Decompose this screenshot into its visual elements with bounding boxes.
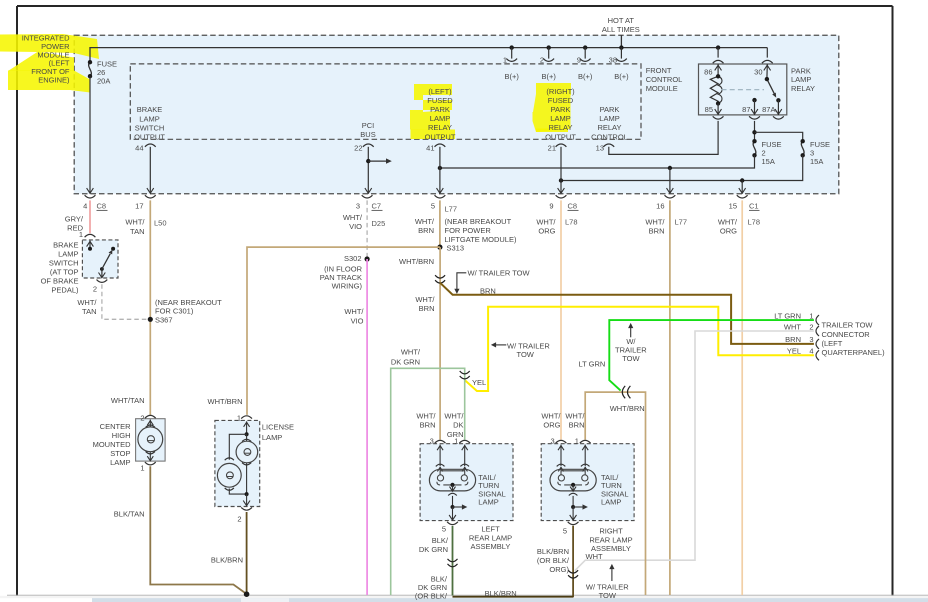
svg-text:W/ TRAILER: W/ TRAILER <box>507 341 550 350</box>
relay pin 86 wire <box>713 48 724 77</box>
FCM pin 21 wire <box>556 144 567 194</box>
trailer tow connector terminals <box>816 315 819 360</box>
brake lamp switch internals <box>87 241 116 278</box>
svg-text:2: 2 <box>809 322 813 331</box>
svg-text:30: 30 <box>754 68 762 77</box>
svg-text:BRN: BRN <box>480 286 496 295</box>
svg-text:(NEAR BREAKOUT: (NEAR BREAKOUT <box>155 298 222 307</box>
svg-text:1: 1 <box>809 311 813 320</box>
brake lamp switch box <box>82 240 118 278</box>
svg-text:DK GRN: DK GRN <box>391 358 420 367</box>
svg-text:ALL TIMES: ALL TIMES <box>602 25 640 34</box>
fuse 2 output wire to pins 41 and 16 <box>438 155 755 170</box>
svg-text:RELAY: RELAY <box>597 123 621 132</box>
wire YEL to trailer tow connector pin 4 <box>465 307 814 391</box>
label license lamp <box>208 397 295 523</box>
svg-text:SWITCH: SWITCH <box>135 123 165 132</box>
svg-text:BRN: BRN <box>569 421 585 430</box>
IPM exit 4 wire from fuse 26 <box>87 76 94 193</box>
svg-text:5: 5 <box>442 525 446 534</box>
wire WHT/ORG L78 exit 9 to right tail lamp pin 3 <box>560 200 562 439</box>
B+ labels <box>505 72 630 81</box>
svg-text:ENGINE): ENGINE) <box>38 76 70 85</box>
dashed wire brake switch pin 2 to S367 <box>102 284 147 319</box>
break symbol yellow/green junction <box>460 371 470 374</box>
svg-text:9: 9 <box>577 56 581 65</box>
break symbol on WHT/BRN left <box>435 275 445 278</box>
svg-text:(AT TOP: (AT TOP <box>50 268 79 277</box>
svg-text:L78: L78 <box>565 218 578 227</box>
svg-text:RIGHT: RIGHT <box>599 527 623 536</box>
svg-text:WHT/: WHT/ <box>718 218 738 227</box>
svg-text:WHT/: WHT/ <box>343 213 363 222</box>
wire WHT/BRN S313 branch to license lamp <box>247 247 440 415</box>
label right rear lamp assembly <box>563 527 633 554</box>
svg-text:BLK/TAN: BLK/TAN <box>114 510 145 519</box>
svg-text:15A: 15A <box>810 157 823 166</box>
svg-text:20A: 20A <box>97 77 110 86</box>
svg-text:(NEAR BREAKOUT: (NEAR BREAKOUT <box>445 217 512 226</box>
svg-text:86: 86 <box>704 68 712 77</box>
IPM exit connectors <box>85 195 748 198</box>
license lamp bulb lower <box>217 458 246 494</box>
fuse 2 15A <box>752 139 756 158</box>
brake lamp switch pin 2 connector <box>97 280 108 283</box>
wire BLK/DK GRN left lamp pin 5 to bottom <box>452 526 454 596</box>
w/ trailer tow pointer (WHT) <box>609 564 614 581</box>
svg-text:LAMP: LAMP <box>550 114 570 123</box>
svg-text:3: 3 <box>551 437 555 446</box>
svg-text:WHT/: WHT/ <box>125 218 145 227</box>
svg-text:WHT: WHT <box>586 552 603 561</box>
svg-text:WHT/: WHT/ <box>415 295 435 304</box>
wire BLK/BRN license lamp to bottom splice <box>246 512 248 594</box>
break symbol on BLK/BRN right <box>568 570 578 573</box>
svg-text:LAMP: LAMP <box>262 433 282 442</box>
svg-text:WHT/: WHT/ <box>401 348 421 357</box>
license lamp box <box>215 420 260 506</box>
break symbol LT GRN to WHT/BRN <box>622 386 625 398</box>
hot at all times feed wire <box>620 35 622 47</box>
svg-text:LT GRN: LT GRN <box>774 311 801 320</box>
svg-text:PARK: PARK <box>791 66 811 75</box>
svg-text:16: 16 <box>656 202 664 211</box>
svg-text:WHT/: WHT/ <box>416 411 436 420</box>
svg-text:YEL: YEL <box>787 347 801 356</box>
svg-text:ORG: ORG <box>543 421 560 430</box>
svg-text:BLK/: BLK/ <box>432 536 449 545</box>
FCM pin 9 B+ <box>580 48 591 62</box>
svg-text:L77: L77 <box>445 205 458 214</box>
svg-text:B(+): B(+) <box>505 72 520 81</box>
svg-text:CONNECTOR: CONNECTOR <box>822 330 871 339</box>
svg-text:BRAKE: BRAKE <box>53 241 78 250</box>
svg-text:L50: L50 <box>154 218 167 227</box>
wire WHT/VIO D25 to bottom <box>366 259 368 595</box>
svg-text:FUSED: FUSED <box>427 96 453 105</box>
svg-text:REAR LAMP: REAR LAMP <box>469 533 512 542</box>
svg-text:HOT AT: HOT AT <box>608 16 635 25</box>
relay pin 87 contact <box>749 98 760 119</box>
svg-text:MODULE: MODULE <box>646 84 678 93</box>
svg-text:3: 3 <box>809 335 813 344</box>
svg-text:WHT/: WHT/ <box>344 307 364 316</box>
brake lamp switch pin 1 connector <box>85 234 96 237</box>
relay switch arm 30-87A <box>765 77 781 103</box>
svg-text:D25: D25 <box>372 219 386 228</box>
svg-text:BRN: BRN <box>418 226 434 235</box>
svg-text:LAMP: LAMP <box>601 498 621 507</box>
svg-text:WHT: WHT <box>784 322 801 331</box>
IPM exit 15 wire <box>739 181 746 194</box>
CHMSL pin 1 connector <box>145 462 156 465</box>
license lamp bulb upper <box>236 434 258 494</box>
svg-text:1: 1 <box>237 414 241 423</box>
svg-text:CENTER: CENTER <box>100 422 131 431</box>
svg-text:BRAKE: BRAKE <box>137 105 162 114</box>
svg-text:(OR BLK/: (OR BLK/ <box>415 591 448 600</box>
svg-text:1: 1 <box>140 464 144 473</box>
svg-text:15A: 15A <box>762 157 775 166</box>
svg-text:WHT/: WHT/ <box>645 218 665 227</box>
label S302 <box>320 254 363 290</box>
svg-text:38: 38 <box>609 56 617 65</box>
IPM exit 16 wire <box>667 168 674 194</box>
svg-text:B(+): B(+) <box>542 72 557 81</box>
center high mounted stop lamp box <box>136 419 166 461</box>
svg-text:RELAY: RELAY <box>548 123 572 132</box>
svg-text:VIO: VIO <box>351 316 364 325</box>
svg-text:LICENSE: LICENSE <box>262 423 294 432</box>
svg-text:WHT/: WHT/ <box>536 218 556 227</box>
splice S313 <box>437 245 442 250</box>
splice S367 <box>148 317 153 322</box>
wire WHT trailer tow connector pin 2 <box>575 331 814 571</box>
svg-text:4: 4 <box>83 202 87 211</box>
svg-text:ORG: ORG <box>720 227 737 236</box>
wire GRY/RED exit 4 to brake lamp switch <box>89 200 91 233</box>
FCM bottom pin numbers <box>135 144 604 153</box>
svg-text:TAN: TAN <box>130 227 144 236</box>
FCM B+ pin numbers <box>503 56 617 65</box>
right tail/turn signal lamp output branch <box>569 485 588 520</box>
svg-text:2: 2 <box>93 284 97 293</box>
svg-text:2: 2 <box>237 515 241 524</box>
wire WHT/TAN L50 exit 17 to CHMSL <box>149 200 151 415</box>
trailer tow connector labels <box>774 311 813 355</box>
wire WHT/BRN L77 exit 16 to bottom <box>669 200 671 595</box>
svg-text:WHT/: WHT/ <box>565 411 585 420</box>
break symbol on BLK/DK GRN <box>448 559 458 562</box>
svg-text:22: 22 <box>354 144 362 153</box>
w/ trailer tow pointer (YEL) <box>491 342 506 347</box>
svg-text:41: 41 <box>426 144 434 153</box>
wire BRN to trailer tow connector pin 3 <box>440 283 814 344</box>
svg-text:(LEFT: (LEFT <box>822 339 843 348</box>
left lamp pin labels <box>416 411 464 445</box>
relay pin labels <box>704 68 775 115</box>
fuse 3 output wire to pins 9 and 15 <box>559 155 803 182</box>
svg-text:9: 9 <box>549 202 553 211</box>
license lamp internals <box>229 421 249 459</box>
FCM pin 1 B+ <box>506 48 517 62</box>
svg-text:TAN: TAN <box>82 307 96 316</box>
svg-text:1: 1 <box>503 56 507 65</box>
integrated power module box (IPM) <box>74 35 839 194</box>
left tail/turn signal lamp pin 5 connector <box>447 522 458 525</box>
license lamp output node <box>243 492 250 506</box>
svg-text:TOW: TOW <box>622 354 640 363</box>
svg-text:PARK: PARK <box>600 105 620 114</box>
svg-text:21: 21 <box>548 144 556 153</box>
svg-text:S302: S302 <box>344 254 362 263</box>
svg-text:B(+): B(+) <box>614 72 629 81</box>
FCM pin 2 B+ <box>543 48 554 62</box>
park lamp relay box <box>699 64 787 115</box>
svg-text:BLK/BRN: BLK/BRN <box>485 589 517 598</box>
relay pin 30 wire <box>762 48 773 80</box>
wire WHT/DK GRN elbow to left tail lamp pin 1 <box>391 368 465 595</box>
svg-text:5: 5 <box>431 202 435 211</box>
wire WHT/BRN L77 exit 5 to S313 <box>439 200 441 247</box>
svg-text:STOP: STOP <box>110 449 130 458</box>
label brake lamp switch <box>41 230 98 316</box>
svg-text:ORG: ORG <box>538 227 555 236</box>
wire BLK/TAN CHMSL to bottom splice <box>150 466 246 594</box>
svg-text:PARK: PARK <box>430 105 450 114</box>
svg-text:CONTROL: CONTROL <box>646 75 683 84</box>
svg-text:(LEFT): (LEFT) <box>428 87 452 96</box>
svg-text:WHT/: WHT/ <box>415 217 435 226</box>
svg-text:WIRING): WIRING) <box>332 282 363 291</box>
svg-text:BRN: BRN <box>649 227 665 236</box>
svg-text:S313: S313 <box>447 244 465 253</box>
wire WHT/ORG L78 exit 15 to bottom <box>741 200 743 595</box>
svg-text:MOUNTED: MOUNTED <box>93 440 131 449</box>
svg-text:QUARTERPANEL): QUARTERPANEL) <box>822 348 886 357</box>
svg-text:CONTROL: CONTROL <box>591 132 628 141</box>
svg-text:DK: DK <box>453 421 463 430</box>
label hot at all times <box>602 16 640 34</box>
left tail/turn signal lamp pin connectors <box>435 440 470 443</box>
w/ trailer tow pointer (LT GRN) <box>628 323 633 337</box>
svg-text:BRN: BRN <box>419 304 435 313</box>
FCM pin 13 wire to relay 85 <box>603 121 718 154</box>
svg-text:W/ TRAILER TOW: W/ TRAILER TOW <box>468 268 531 277</box>
svg-text:1: 1 <box>454 437 458 446</box>
FCM pin 38 B+ <box>616 48 627 62</box>
svg-text:DK GRN: DK GRN <box>419 545 448 554</box>
wire BLK/BRN bottom jumper <box>453 596 574 598</box>
svg-text:BLK/BRN: BLK/BRN <box>537 547 569 556</box>
FCM pin 44 wire <box>145 144 156 194</box>
svg-text:L77: L77 <box>675 218 688 227</box>
svg-text:BRN: BRN <box>420 421 436 430</box>
svg-text:FRONT: FRONT <box>646 66 672 75</box>
svg-text:TRAILER TOW: TRAILER TOW <box>822 321 874 330</box>
svg-text:5: 5 <box>563 527 567 536</box>
wire LT GRN trailer tow connector pin 1 <box>609 320 814 391</box>
svg-text:ORG): ORG) <box>549 565 569 574</box>
svg-text:87: 87 <box>742 105 750 114</box>
svg-text:WHT/BRN: WHT/BRN <box>208 397 243 406</box>
relay pin 85 wire <box>713 103 724 119</box>
FCM pin 41 wire <box>435 144 446 194</box>
svg-text:1: 1 <box>79 230 83 239</box>
svg-text:GRY/: GRY/ <box>65 215 84 224</box>
bottom splice node <box>244 591 250 597</box>
svg-text:VIO: VIO <box>349 222 362 231</box>
wire BLK/BRN right lamp pin 5 to bottom <box>572 526 574 598</box>
relay pin 87A wire <box>773 100 784 119</box>
label WHT/DK GRN horizontal <box>391 348 421 367</box>
svg-text:1: 1 <box>575 437 579 446</box>
svg-text:2: 2 <box>540 56 544 65</box>
label L77 near breakout <box>445 205 517 253</box>
svg-text:RELAY: RELAY <box>428 123 452 132</box>
svg-text:LAMP: LAMP <box>599 114 619 123</box>
label CHMSL <box>93 414 145 473</box>
right tail/turn signal lamp pin 5 connector <box>568 522 579 525</box>
IPM exit labels <box>83 202 759 211</box>
svg-text:LAMP: LAMP <box>139 114 159 123</box>
svg-text:SWITCH: SWITCH <box>49 259 79 268</box>
svg-text:(RIGHT): (RIGHT) <box>546 87 575 96</box>
svg-text:FOR POWER: FOR POWER <box>445 226 492 235</box>
svg-text:17: 17 <box>135 202 143 211</box>
w/ trailer tow pointer (BRN) <box>454 273 466 294</box>
svg-text:3: 3 <box>430 437 434 446</box>
svg-text:44: 44 <box>135 144 143 153</box>
svg-text:15: 15 <box>729 202 737 211</box>
svg-text:TOW: TOW <box>517 350 535 359</box>
bus junction dots <box>510 45 721 49</box>
right tail/turn signal lamp box <box>541 444 634 521</box>
fuse 3 15A <box>801 139 805 158</box>
wire color labels row <box>65 213 760 236</box>
left tail/turn signal lamp box <box>420 444 513 521</box>
svg-text:HIGH: HIGH <box>112 431 131 440</box>
right tail/turn signal lamp pin connectors <box>556 440 591 443</box>
svg-text:BRN: BRN <box>785 335 801 344</box>
svg-text:YEL: YEL <box>472 378 486 387</box>
svg-text:C8: C8 <box>97 202 107 211</box>
svg-text:WHT/: WHT/ <box>541 411 561 420</box>
svg-text:BUS: BUS <box>360 130 375 139</box>
label w/ trailer tow yel <box>507 341 550 359</box>
dashed wire exit 3 to S302 <box>366 200 368 256</box>
svg-text:WHT/: WHT/ <box>444 411 464 420</box>
front control module box <box>130 64 641 139</box>
svg-text:C8: C8 <box>568 202 578 211</box>
wire WHT/BRN right lamp pin 1 feed <box>585 392 645 595</box>
svg-text:3: 3 <box>356 202 360 211</box>
license lamp pin 1 connector <box>241 416 252 419</box>
svg-text:85: 85 <box>705 105 713 114</box>
right lamp pin labels <box>541 411 585 445</box>
svg-text:C1: C1 <box>749 202 759 211</box>
svg-text:LAMP: LAMP <box>110 458 130 467</box>
svg-text:OUTPUT: OUTPUT <box>134 133 165 142</box>
svg-text:4: 4 <box>809 347 813 356</box>
CHMSL bulb <box>138 420 163 462</box>
right tail/turn signal lamp bulb <box>550 445 596 491</box>
fuse 26 20A <box>88 60 92 78</box>
svg-text:PEDAL): PEDAL) <box>51 286 79 295</box>
wire relay 87 to fuses <box>752 121 802 141</box>
svg-text:WHT/: WHT/ <box>77 298 97 307</box>
svg-text:FOR C301): FOR C301) <box>155 307 194 316</box>
CHMSL pin 2 connector <box>145 415 156 418</box>
svg-text:BLK/BRN: BLK/BRN <box>211 556 243 565</box>
svg-text:TOW: TOW <box>599 591 617 600</box>
svg-text:OUTPUT: OUTPUT <box>545 132 576 141</box>
svg-text:REAR LAMP: REAR LAMP <box>589 535 632 544</box>
svg-text:LAMP: LAMP <box>478 498 498 507</box>
svg-text:13: 13 <box>596 144 604 153</box>
FCM pin 22 PCI bus wire <box>363 144 392 194</box>
svg-text:C7: C7 <box>372 202 382 211</box>
svg-text:87A: 87A <box>762 105 775 114</box>
svg-text:PCI: PCI <box>362 121 375 130</box>
svg-text:FUSED: FUSED <box>548 96 574 105</box>
relay coil 86-85 <box>710 74 722 106</box>
relay armature dashed link <box>722 89 765 91</box>
svg-text:OF BRAKE: OF BRAKE <box>41 277 79 286</box>
svg-text:2: 2 <box>140 414 144 423</box>
splice S302 <box>365 256 370 261</box>
svg-text:LAMP: LAMP <box>791 75 811 84</box>
main B+ bus wire from fuse 26 <box>90 48 767 63</box>
svg-text:LT GRN: LT GRN <box>578 360 605 369</box>
license lamp pin 2 connector <box>241 507 252 510</box>
svg-text:B(+): B(+) <box>578 72 593 81</box>
svg-text:WHT/BRN: WHT/BRN <box>399 257 434 266</box>
svg-text:RELAY: RELAY <box>791 84 815 93</box>
wire WHT/BRN S313 down to left tail lamp pin 3 <box>439 247 441 440</box>
svg-text:(OR BLK/: (OR BLK/ <box>537 556 570 565</box>
left tail/turn signal lamp bulb <box>429 445 475 491</box>
svg-text:ASSEMBLY: ASSEMBLY <box>471 542 511 551</box>
svg-text:LAMP: LAMP <box>58 250 78 259</box>
svg-text:LEFT: LEFT <box>481 525 500 534</box>
svg-text:LAMP: LAMP <box>430 114 450 123</box>
svg-text:WHT/TAN: WHT/TAN <box>111 396 145 405</box>
svg-text:WHT/BRN: WHT/BRN <box>610 404 645 413</box>
svg-text:S367: S367 <box>155 316 173 325</box>
svg-text:OUTPUT: OUTPUT <box>425 132 456 141</box>
svg-text:L78: L78 <box>748 218 761 227</box>
label left rear lamp assembly <box>442 525 512 552</box>
svg-text:PARK: PARK <box>551 105 571 114</box>
left tail/turn signal lamp output branch <box>448 485 467 520</box>
